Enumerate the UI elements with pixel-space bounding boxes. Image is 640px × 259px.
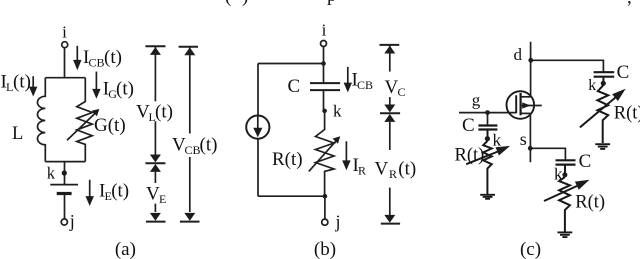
wire from node i down to top rail (a) bbox=[64, 48, 66, 78]
current source circle (b) bbox=[246, 116, 269, 139]
svg-text:(a): (a) bbox=[115, 239, 136, 259]
svg-text:C: C bbox=[579, 151, 592, 172]
battery E short thick plate (a) bbox=[57, 192, 72, 195]
svg-text:d: d bbox=[514, 45, 523, 64]
variable resistor R(t) zigzag right branch (c) bbox=[597, 85, 608, 143]
svg-text:G(t): G(t) bbox=[94, 115, 126, 136]
junction dot top (b) bbox=[321, 61, 326, 66]
voltage dimension line V_CB(t) (a) bbox=[179, 47, 200, 222]
variable conductance G(t) zigzag (a) bbox=[77, 78, 92, 162]
MOSFET gate bar (c) bbox=[515, 95, 517, 113]
arrow through R(t) gate branch (c) bbox=[466, 146, 510, 164]
svg-text:CB: CB bbox=[185, 143, 201, 157]
MOSFET drain connection (c) bbox=[521, 96, 531, 98]
current arrow I_E(t) (a) bbox=[86, 180, 94, 206]
node k junction dot (a) bbox=[62, 170, 67, 175]
bottom junction dot (b) bbox=[323, 194, 328, 199]
label V_L(t) (a) bbox=[136, 102, 173, 125]
svg-text:(b): (b) bbox=[314, 239, 336, 259]
top rail wire (a) bbox=[45, 77, 85, 79]
label V_R(t) (b) bbox=[375, 159, 417, 182]
label I_CB(t) (a) bbox=[83, 47, 122, 70]
svg-text:(t): (t) bbox=[398, 159, 416, 180]
svg-text:E: E bbox=[159, 192, 166, 206]
svg-text:k: k bbox=[588, 77, 596, 94]
node i terminal circle (b) bbox=[321, 41, 327, 47]
svg-text:i: i bbox=[322, 21, 327, 40]
svg-text:R(t): R(t) bbox=[614, 104, 640, 124]
svg-text:k: k bbox=[333, 102, 342, 121]
source wire (c) bbox=[529, 113, 531, 162]
label I_R (b) bbox=[353, 155, 367, 178]
svg-text:k: k bbox=[47, 164, 56, 183]
arrow through R(t) right branch (c) bbox=[580, 89, 626, 128]
svg-text:V: V bbox=[385, 77, 399, 98]
variable resistor R(t) zigzag gate branch (c) bbox=[483, 141, 492, 194]
node j terminal circle (b) bbox=[322, 219, 328, 225]
wire battery to node j (a) bbox=[64, 195, 66, 219]
label V_C (b) bbox=[385, 77, 406, 99]
label I_L(t) (a) bbox=[1, 71, 31, 94]
current source arrow (b) bbox=[253, 116, 262, 138]
current arrow I_G(t) (a) bbox=[92, 72, 100, 99]
label I_G(t) (a) bbox=[103, 79, 134, 102]
MOSFET body line with arrow (c) bbox=[522, 102, 542, 108]
svg-text:V: V bbox=[146, 184, 160, 205]
current arrow I_CB (b) bbox=[344, 67, 352, 93]
MOSFET source connection (c) bbox=[521, 112, 531, 114]
arrow through G(t) (a) bbox=[67, 109, 99, 140]
current arrow I_R (b) bbox=[342, 141, 350, 170]
svg-text:(t): (t) bbox=[155, 102, 173, 123]
node k dot source branch (c) bbox=[562, 172, 567, 177]
svg-text:s: s bbox=[520, 129, 527, 149]
svg-text:): ) bbox=[242, 0, 248, 7]
inductor L coil (a) bbox=[37, 78, 45, 162]
svg-text:,: , bbox=[627, 0, 632, 8]
capacitor C (b) bbox=[310, 64, 340, 111]
drain junction dot (c) bbox=[528, 58, 533, 63]
svg-text:(t): (t) bbox=[116, 79, 134, 100]
capacitor C gate branch (c) bbox=[478, 113, 497, 141]
svg-text:R(t): R(t) bbox=[455, 146, 485, 166]
ground source branch (c) bbox=[558, 232, 573, 237]
source junction dot (c) bbox=[528, 146, 533, 151]
svg-text:L: L bbox=[12, 124, 23, 144]
svg-text:(c): (c) bbox=[520, 239, 541, 259]
svg-text:C: C bbox=[617, 62, 630, 83]
svg-text:j: j bbox=[335, 211, 341, 231]
svg-text:i: i bbox=[62, 23, 67, 42]
svg-text:R: R bbox=[389, 167, 397, 181]
node k dot gate branch (c) bbox=[485, 136, 490, 141]
current arrow I_L(t) (a) bbox=[29, 76, 37, 96]
svg-text:C: C bbox=[462, 115, 475, 136]
gate junction dot (c) bbox=[485, 110, 490, 115]
top wire to current source branch (b) bbox=[258, 63, 324, 65]
gate wire (c) bbox=[459, 112, 516, 114]
node i terminal circle (a) bbox=[62, 42, 68, 48]
svg-text:V: V bbox=[375, 159, 389, 180]
svg-text:C: C bbox=[398, 85, 406, 99]
MOSFET channel bar (c) bbox=[519, 93, 521, 115]
arrow through R(t) source branch (c) bbox=[544, 180, 590, 201]
bottom rail wire (a) bbox=[45, 161, 85, 163]
label I_CB (b) bbox=[352, 70, 374, 93]
current arrow I_CB(t) (a) bbox=[73, 46, 81, 70]
voltage dimension line V_L / V_E (a) bbox=[145, 46, 165, 221]
node j terminal circle (a) bbox=[61, 219, 67, 225]
svg-text:(t): (t) bbox=[104, 47, 122, 68]
cut-off caption text at top edge bbox=[225, 0, 632, 8]
ground right branch (c) bbox=[595, 144, 610, 149]
node k dot right branch (c) bbox=[601, 81, 606, 86]
label V_CB(t) (a) bbox=[172, 135, 217, 158]
wire source to bottom branch (c) bbox=[530, 148, 565, 160]
svg-text:(t): (t) bbox=[111, 181, 129, 202]
battery E long plate (a) bbox=[50, 184, 78, 186]
svg-text:CB: CB bbox=[89, 55, 105, 69]
wire to node j (b) bbox=[324, 196, 326, 219]
bottom wire (b) bbox=[258, 195, 325, 197]
svg-text:(t): (t) bbox=[200, 135, 218, 156]
svg-text:j: j bbox=[69, 211, 75, 231]
svg-text:g: g bbox=[472, 91, 481, 110]
svg-text:CB: CB bbox=[357, 78, 373, 92]
wire drain to right branch (c) bbox=[531, 60, 604, 72]
svg-text:(t): (t) bbox=[13, 71, 31, 92]
left branch wire lower (b) bbox=[257, 139, 259, 197]
svg-text:R(t): R(t) bbox=[272, 149, 303, 170]
capacitor C source branch (c) bbox=[556, 160, 576, 176]
variable resistor R(t) zigzag (b) bbox=[316, 111, 335, 196]
svg-text:R: R bbox=[358, 164, 366, 178]
svg-text:C: C bbox=[288, 76, 301, 97]
left branch wire upper (b) bbox=[257, 64, 259, 116]
MOSFET U1 circle (c) bbox=[507, 91, 535, 119]
wire node i to junction (b) bbox=[323, 46, 325, 63]
svg-text:R(t): R(t) bbox=[575, 193, 605, 213]
label I_E(t) (a) bbox=[99, 181, 129, 204]
variable resistor R(t) zigzag source branch (c) bbox=[559, 177, 570, 232]
voltage dimension line V_C / V_R(t) (b) bbox=[380, 45, 401, 224]
drain wire (c) bbox=[530, 42, 532, 97]
node k dot (b) bbox=[322, 109, 327, 114]
svg-text:(: ( bbox=[225, 0, 231, 7]
capacitor C right branch (c) bbox=[594, 72, 615, 85]
svg-text:k: k bbox=[493, 131, 502, 150]
stem from rail to battery (a) bbox=[64, 162, 66, 185]
label V_E (a) bbox=[146, 184, 166, 207]
arrow through R(t) (b) bbox=[309, 136, 340, 171]
svg-text:p: p bbox=[327, 0, 337, 6]
ground gate branch (c) bbox=[480, 195, 495, 199]
